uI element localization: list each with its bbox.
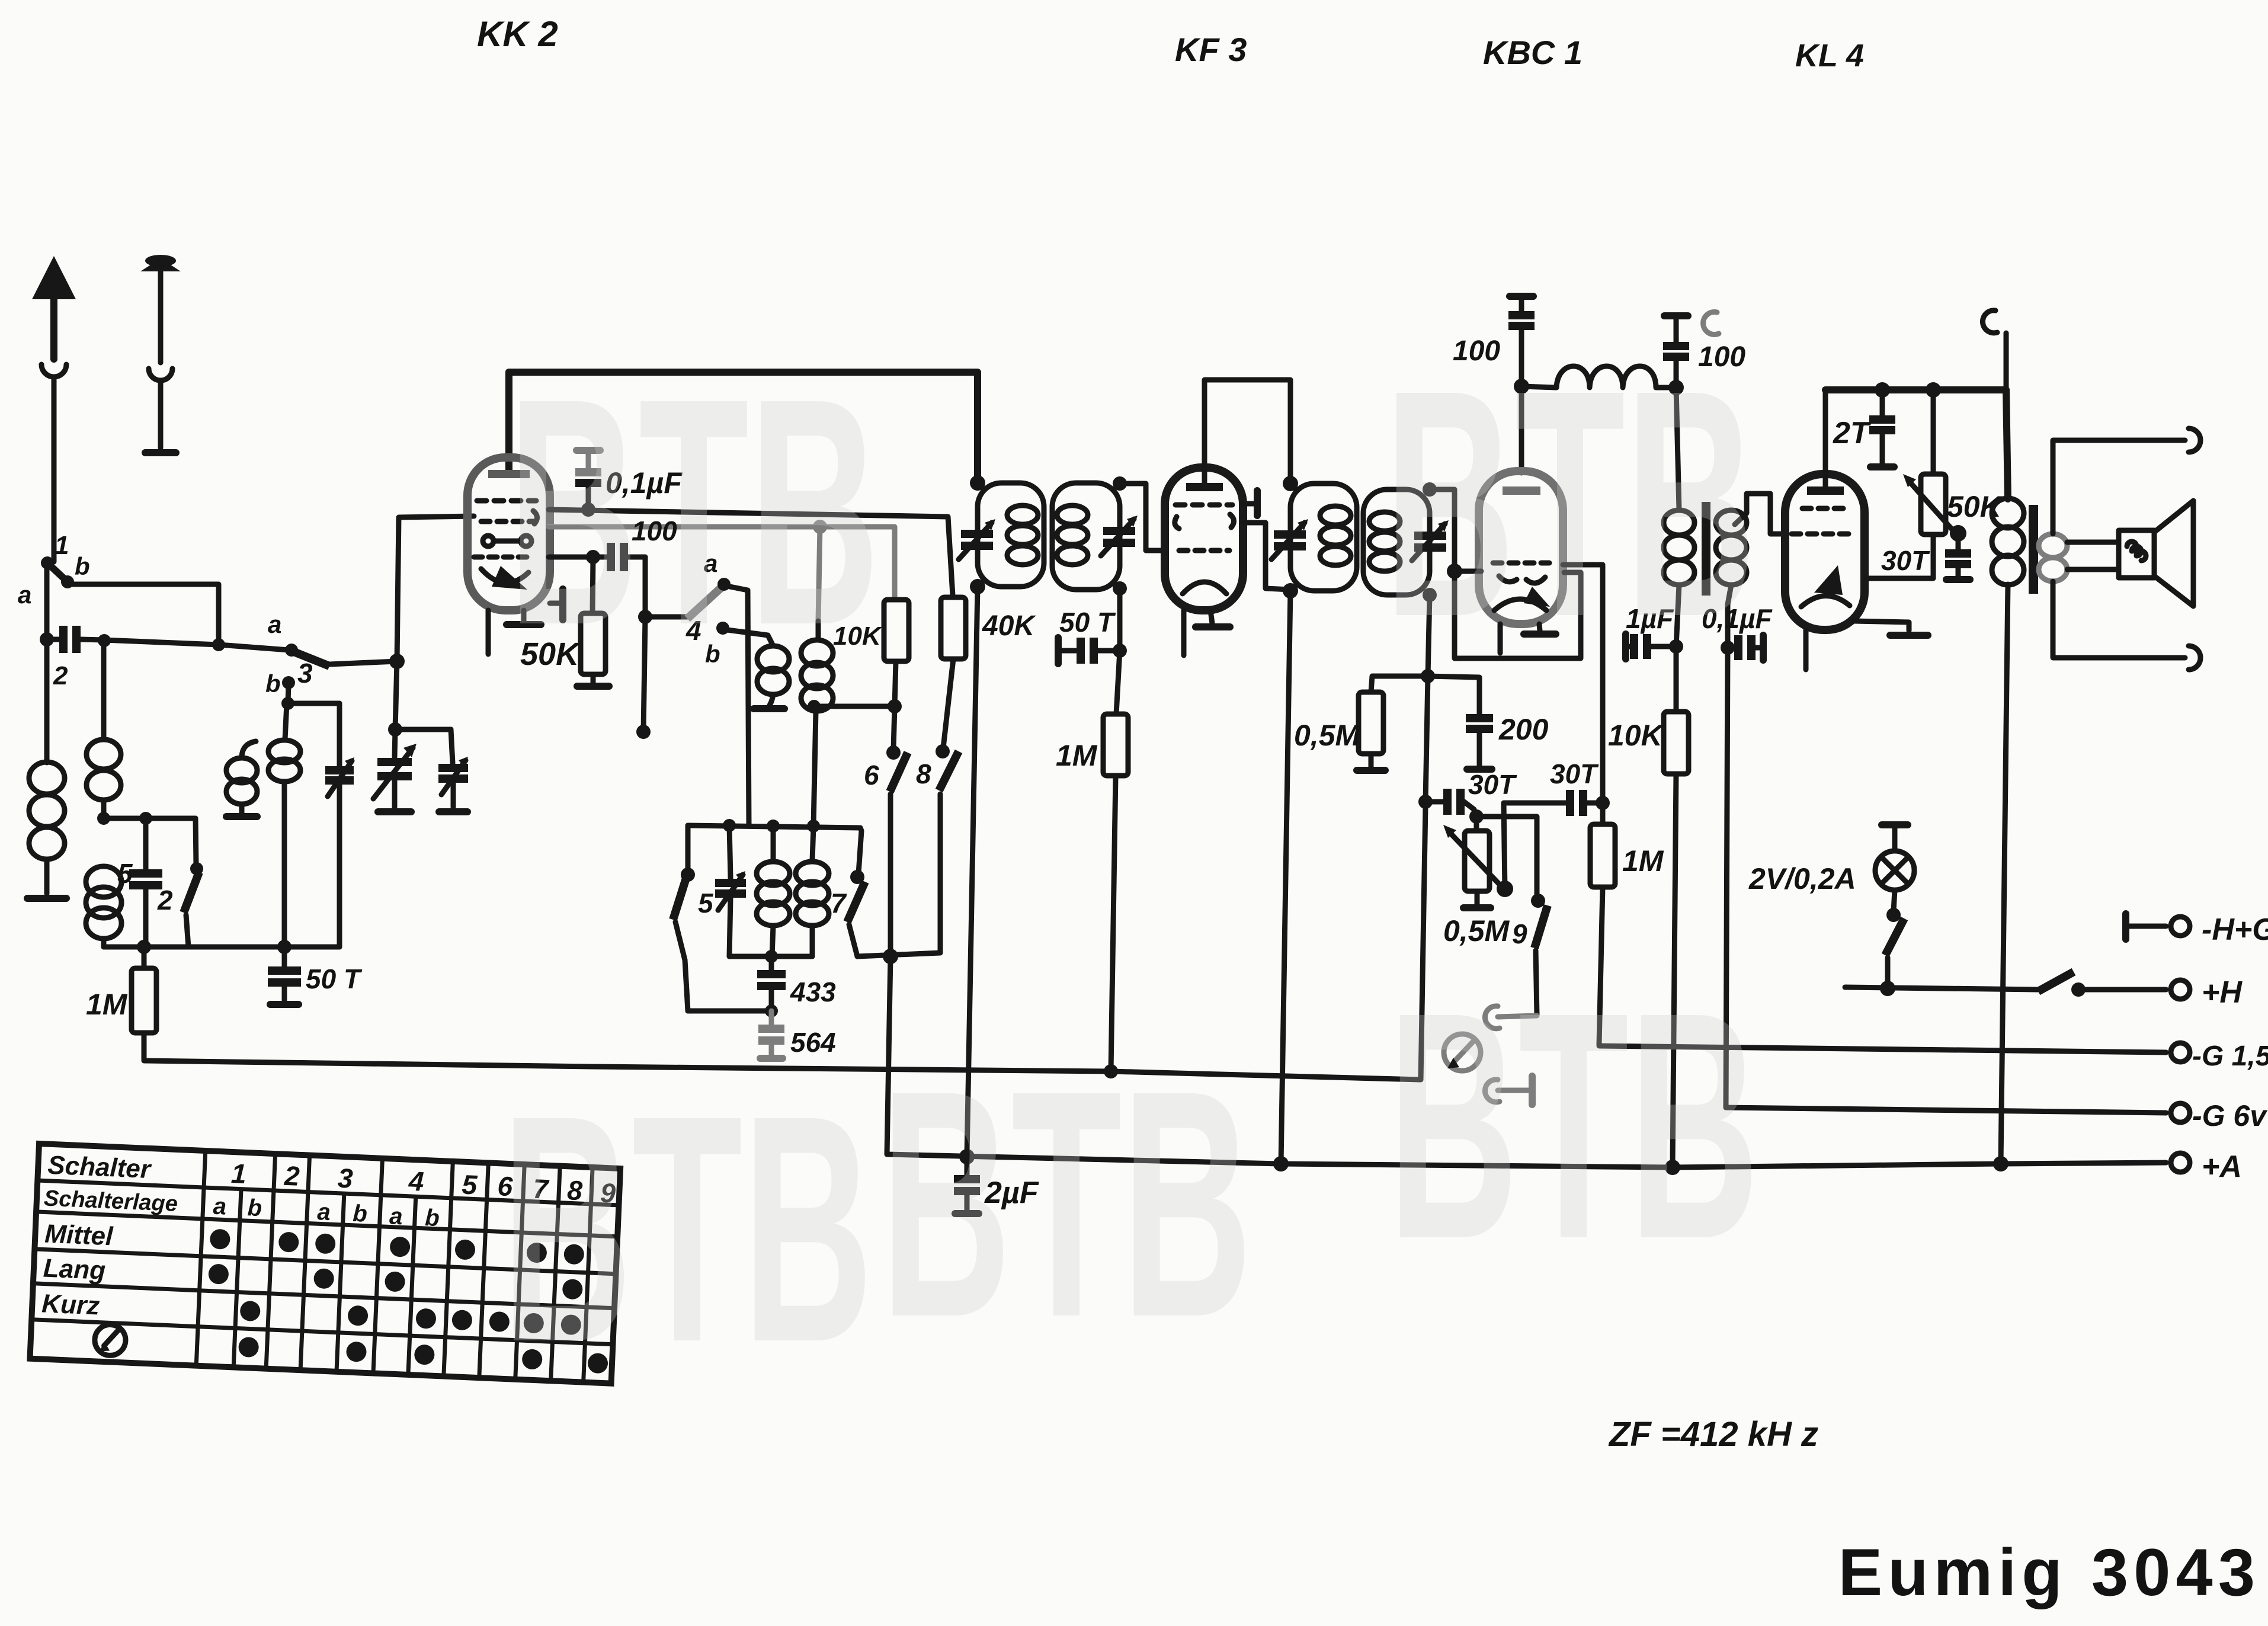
- KF3 bottom-left lead: [1181, 610, 1187, 655]
- tube KBC1: [1479, 471, 1563, 624]
- svg-text:5: 5: [462, 1169, 479, 1201]
- wire down from cap 100: [643, 557, 645, 732]
- svg-text:2: 2: [53, 661, 68, 690]
- oscillator coil left: [771, 826, 776, 860]
- ground KF3: [1210, 610, 1212, 623]
- switch 4: [645, 614, 687, 620]
- svg-text:3: 3: [337, 1163, 354, 1194]
- resistor 10K (output): [1674, 646, 1679, 712]
- svg-text:Eumig 3043: Eumig 3043: [1838, 1535, 2260, 1609]
- svg-text:2: 2: [157, 885, 173, 916]
- switch 5: [685, 825, 691, 871]
- primary return to +A: [2001, 584, 2008, 1163]
- svg-text:a: a: [317, 1199, 331, 1225]
- capacitor 5: [143, 818, 149, 869]
- switch 9: [1476, 817, 1537, 897]
- ground under L1: [27, 895, 66, 902]
- node b3: [282, 676, 295, 689]
- resistor 1M (left): [142, 947, 147, 968]
- svg-text:1: 1: [230, 1158, 247, 1189]
- hook contact (top): [1703, 312, 1719, 334]
- trimmer IF1 primary: [961, 530, 993, 538]
- trimmer on b3 line: [337, 703, 342, 767]
- svg-text:30T: 30T: [1881, 545, 1930, 576]
- svg-text:Lang: Lang: [43, 1254, 106, 1285]
- coil bottom wire: [729, 954, 812, 959]
- tube KF3: [1165, 468, 1243, 610]
- KL4 bottom-left lead: [1803, 630, 1809, 670]
- trimmer IF2 primary: [1274, 530, 1306, 539]
- +H line with switch: [1845, 987, 2038, 990]
- coil L2 upper: [98, 634, 111, 647]
- wire b1: [68, 584, 219, 645]
- switch row merge wire: [857, 794, 940, 956]
- KF3 plate loop to IF2: [1205, 380, 1290, 483]
- svg-text:KK 2: KK 2: [477, 14, 558, 54]
- svg-text:Kurz: Kurz: [41, 1289, 100, 1320]
- svg-text:-H+G: -H+G: [2202, 913, 2268, 947]
- ground KK2: [521, 610, 527, 621]
- KL4 top bus: [1825, 386, 2006, 393]
- svg-text:2T: 2T: [1833, 416, 1872, 450]
- svg-text:a: a: [213, 1193, 227, 1220]
- bottom wire left section: [104, 945, 339, 950]
- capacitor 100 (KBC1 top left): [1510, 293, 1533, 300]
- coupling coil right: [816, 621, 821, 640]
- svg-text:Schalter: Schalter: [47, 1151, 152, 1185]
- KBC1 plate lead: [1519, 386, 1524, 473]
- svg-text:KBC 1: KBC 1: [1483, 34, 1583, 71]
- svg-text:1M: 1M: [1056, 739, 1098, 772]
- phono pickup: [1444, 1034, 1481, 1071]
- switch 3: [285, 644, 298, 657]
- -G1,5 bus: [144, 806, 1425, 1080]
- antenna A1: [32, 256, 76, 299]
- grid bus (black): [549, 510, 953, 596]
- switch 6: [893, 706, 895, 749]
- svg-text:BTB: BTB: [501, 1048, 873, 1409]
- wire b4 to coil: [723, 629, 773, 646]
- svg-text:1M: 1M: [86, 988, 128, 1021]
- svg-text:-G 6v: -G 6v: [2192, 1099, 2268, 1132]
- capacitor 30T (KL4): [1956, 533, 1961, 550]
- secondary bottom: [1728, 585, 1731, 648]
- speaker loop bottom: [2053, 581, 2185, 658]
- variable capacitor (tuning, left): [395, 729, 395, 757]
- phono jack upper: [1498, 1016, 1537, 1017]
- IF output transformer primary feed: [1676, 388, 1679, 510]
- oscillator section bus: [688, 825, 860, 828]
- wire to switch 3: [104, 640, 289, 650]
- phono jack lower: [1485, 1080, 1500, 1102]
- svg-text:+A: +A: [2202, 1150, 2242, 1184]
- capacitor 0.1uF (output): [1721, 641, 1735, 655]
- svg-text:433: 433: [790, 977, 836, 1007]
- oscillator coil right: [812, 826, 813, 860]
- resistor 40K: [953, 596, 953, 597]
- svg-text:2: 2: [283, 1160, 300, 1192]
- resistor 1M (diode load): [1600, 803, 1606, 824]
- svg-text:8: 8: [916, 758, 931, 789]
- capacitor 2 (series): [40, 632, 54, 646]
- trimmer IF1 secondary: [1103, 527, 1135, 535]
- KBC1 grid loop: [1430, 489, 1581, 658]
- +A bus: [887, 956, 2166, 1167]
- svg-text:BTB: BTB: [1384, 322, 1756, 684]
- wire to 10K foot: [814, 704, 895, 709]
- svg-text:40K: 40K: [982, 610, 1036, 642]
- svg-text:2V/0,2A: 2V/0,2A: [1748, 862, 1856, 895]
- IF transformer 2 primary: [1283, 476, 1298, 491]
- capacitor 433: [769, 956, 774, 971]
- KBC1 diode wire: [1563, 565, 1603, 801]
- node wire row: [104, 816, 196, 821]
- svg-text:a: a: [18, 581, 31, 609]
- KF3 right lead with tick: [1243, 501, 1254, 507]
- svg-text:200: 200: [1498, 713, 1549, 746]
- switch table: [30, 1144, 620, 1384]
- IF2b line down: [1425, 595, 1430, 802]
- ground KBC1: [1539, 624, 1540, 630]
- antenna A2: [140, 258, 181, 271]
- 50K foot to KL4: [1866, 534, 1933, 578]
- resistor 0.5M: [1371, 676, 1428, 692]
- svg-text:7: 7: [831, 888, 847, 918]
- watermark stamps: [501, 322, 1759, 1409]
- svg-text:BTB: BTB: [1388, 945, 1759, 1306]
- wire switch5 to 433 node: [688, 1009, 771, 1014]
- svg-text:b: b: [75, 552, 90, 580]
- antenna coil L1: [44, 639, 50, 763]
- svg-text:4: 4: [408, 1166, 425, 1197]
- RF choke: [1521, 386, 1556, 388]
- svg-text:30T: 30T: [1550, 758, 1599, 789]
- tube KL4: [1785, 474, 1865, 630]
- svg-text:5: 5: [117, 858, 133, 889]
- trimmer (right of tuning cap): [451, 729, 453, 763]
- oscillator coil 3 left: [226, 758, 257, 783]
- node below switch 3: [395, 661, 451, 729]
- resistor 50K (KK2): [592, 557, 593, 613]
- svg-text:+H: +H: [2202, 975, 2243, 1010]
- wire IF1 to KF3 grid: [1120, 484, 1165, 550]
- svg-text:50 T: 50 T: [1059, 607, 1116, 638]
- speaker: [2067, 540, 2119, 545]
- capacitor 1uF: [1622, 634, 1629, 659]
- grid wire to KK2: [397, 516, 474, 661]
- hook contact (right top): [2004, 333, 2009, 390]
- trimmer oscillator: [729, 825, 731, 878]
- primary bottom: [1676, 585, 1679, 646]
- IF output transformer: [1664, 510, 1694, 535]
- resistor 1M (IF): [1116, 651, 1120, 714]
- svg-text:1: 1: [55, 531, 69, 560]
- svg-text:30T: 30T: [1468, 769, 1517, 800]
- switch 8: [943, 659, 953, 748]
- IF transformer 1 secondary: [1052, 483, 1120, 590]
- output transformer: [2006, 390, 2008, 499]
- trimmer IF2 secondary: [1414, 532, 1446, 540]
- main vertical line: [967, 587, 978, 1156]
- svg-text:BTB: BTB: [508, 331, 879, 692]
- svg-text:10K: 10K: [1608, 719, 1665, 752]
- svg-text:b: b: [247, 1195, 262, 1221]
- capacitor 50T (left): [282, 947, 287, 966]
- IF transformer 2 secondary: [1363, 489, 1430, 595]
- coupling coil left (grounded): [757, 646, 789, 672]
- oscillator coil 3 right: [285, 703, 287, 740]
- svg-text:Mittel: Mittel: [44, 1219, 114, 1251]
- svg-text:6: 6: [864, 760, 879, 790]
- svg-text:KL 4: KL 4: [1795, 38, 1864, 73]
- top bus (plate supply): [509, 372, 978, 483]
- svg-text:1M: 1M: [1622, 844, 1664, 878]
- KBC1 bottom-left lead: [1498, 624, 1503, 653]
- svg-text:ZF =412 kH z: ZF =412 kH z: [1608, 1415, 1818, 1454]
- svg-text:0,5M: 0,5M: [1443, 914, 1510, 948]
- svg-text:b: b: [265, 670, 281, 697]
- IF2a line down to +A: [1281, 591, 1290, 1164]
- -G6v line: [1726, 1108, 2166, 1113]
- svg-text:0,5M: 0,5M: [1294, 719, 1361, 752]
- svg-text:5: 5: [698, 888, 714, 918]
- KK2 right lead with tick: [550, 601, 559, 606]
- lamp 2V/0.2A: [1882, 821, 1908, 828]
- capacitor 0.1uF: [576, 447, 600, 454]
- capacitor 30T (left): [1418, 795, 1433, 809]
- speaker loop top: [2053, 440, 2185, 534]
- resistor 10K (KK2 screen): [884, 600, 909, 661]
- tube KK2: [505, 372, 512, 474]
- switch 2: [196, 818, 196, 865]
- switch 1: [41, 556, 54, 569]
- coil L2 lower: [86, 866, 121, 897]
- switch 7: [858, 828, 861, 873]
- capacitor 200: [1428, 676, 1479, 715]
- capacitor 50T: [1117, 588, 1123, 651]
- capacitor 100 (KBC1 top right): [1664, 312, 1688, 319]
- svg-text:50 T: 50 T: [306, 964, 363, 994]
- svg-text:b: b: [353, 1201, 368, 1227]
- capacitor 30T (right): [1504, 803, 1567, 889]
- KF3 screen wire: [1243, 523, 1290, 590]
- secondary top to KL4 grid: [1735, 494, 1785, 534]
- terminal -H+G: [2122, 914, 2129, 939]
- svg-text:BTB: BTB: [880, 1023, 1252, 1384]
- ground KL4: [1853, 621, 1909, 630]
- wire a4 to coil bus: [724, 585, 749, 825]
- capacitor 2uF: [965, 1157, 970, 1176]
- potentiometer 0.5M (volume): [1474, 817, 1479, 831]
- screen bus (gray): [549, 527, 895, 598]
- capacitor 2T: [1880, 390, 1885, 416]
- svg-text:a: a: [268, 610, 281, 638]
- IF transformer 1 primary: [970, 475, 985, 491]
- KK2 bottom-left lead: [486, 610, 491, 654]
- svg-text:-G 1,5: -G 1,5: [2192, 1041, 2268, 1072]
- capacitor 100 (KK2): [586, 550, 600, 564]
- potentiometer 50K (feedback): [1931, 390, 1936, 474]
- 0.1uF line to -G6v: [1726, 648, 1728, 1108]
- capacitor 564 (gray): [769, 1011, 774, 1025]
- svg-text:KF 3: KF 3: [1175, 31, 1247, 68]
- svg-text:b: b: [424, 1205, 440, 1231]
- svg-text:a: a: [389, 1203, 403, 1230]
